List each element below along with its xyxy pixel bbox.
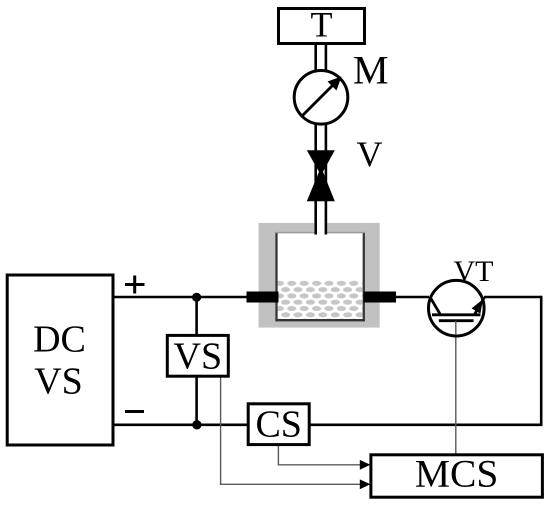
svg-text:CS: CS — [255, 404, 301, 446]
svg-text:M: M — [353, 48, 389, 93]
svg-text:V: V — [357, 134, 383, 174]
svg-text:T: T — [311, 5, 333, 45]
svg-text:VS: VS — [34, 361, 83, 403]
svg-text:DC: DC — [33, 319, 86, 361]
svg-text:VT: VT — [454, 255, 494, 288]
svg-text:VS: VS — [174, 335, 223, 377]
svg-text:MCS: MCS — [415, 452, 498, 496]
